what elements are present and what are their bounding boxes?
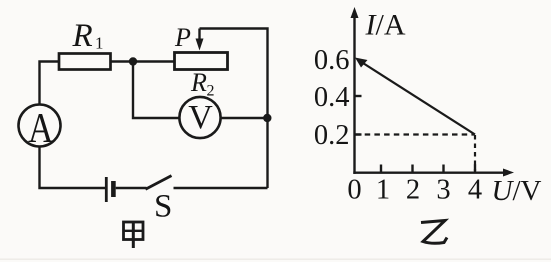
x tick 1: [380, 165, 382, 173]
svg-text:U/V: U/V: [492, 175, 542, 207]
svg-text:R: R: [72, 18, 93, 54]
wire R1 to rheostat: [111, 60, 176, 62]
svg-text:1: 1: [95, 34, 104, 53]
svg-text:0.6: 0.6: [314, 45, 350, 76]
line arrowhead at 0.6: [355, 58, 368, 68]
dashed U=4: [474, 135, 476, 171]
x axis arrowhead: [503, 169, 514, 177]
svg-text:0.2: 0.2: [314, 120, 350, 151]
svg-text:1: 1: [376, 175, 390, 206]
svg-text:P: P: [174, 23, 191, 52]
wiper arrowhead: [196, 39, 204, 51]
switch S blade: [146, 176, 172, 190]
dashed 0.2 level: [355, 133, 474, 135]
y axis: [353, 13, 355, 174]
I-U line: [359, 61, 475, 135]
rheostat R2 box: [175, 53, 228, 70]
ammeter U2 circle: [19, 105, 61, 147]
node junction dot right: [263, 114, 271, 122]
node junction dot left: [129, 57, 137, 65]
y tick 0.4: [355, 95, 362, 97]
x tick 3: [442, 165, 444, 173]
battery short plate: [111, 181, 116, 197]
svg-text:3: 3: [436, 175, 450, 206]
wire ammeter bottom rail: [40, 147, 107, 189]
x tick 4: [474, 165, 476, 173]
svg-text:I/A: I/A: [365, 9, 406, 42]
x tick 2: [411, 165, 413, 173]
wire battery to switch: [116, 187, 147, 189]
svg-text:S: S: [154, 189, 172, 225]
svg-text:V: V: [188, 99, 213, 136]
voltmeter U1 circle: [179, 97, 220, 138]
y axis arrowhead: [351, 7, 359, 18]
wire voltmeter right: [221, 117, 268, 119]
battery long plate: [105, 177, 108, 202]
wiper arrow stem: [198, 29, 200, 41]
svg-text:2: 2: [207, 83, 215, 100]
svg-text:4: 4: [468, 175, 482, 206]
wire wiper to right rail: [200, 29, 268, 189]
svg-text:A: A: [28, 105, 53, 152]
svg-text:R: R: [190, 68, 207, 97]
label 甲 (drawn): [124, 222, 144, 248]
y tick 0.2: [355, 133, 362, 135]
faint scan line bottom: [0, 259, 551, 260]
wire junction A down to voltmeter: [133, 62, 180, 119]
svg-text:0.4: 0.4: [314, 82, 350, 113]
wire left rail top: [40, 62, 61, 106]
label 乙 (drawn): [421, 221, 447, 244]
svg-text:2: 2: [406, 175, 420, 206]
wire switch to right rail: [174, 187, 268, 189]
resistor R1: [59, 54, 111, 70]
svg-text:0: 0: [347, 175, 361, 206]
x axis: [353, 171, 508, 173]
